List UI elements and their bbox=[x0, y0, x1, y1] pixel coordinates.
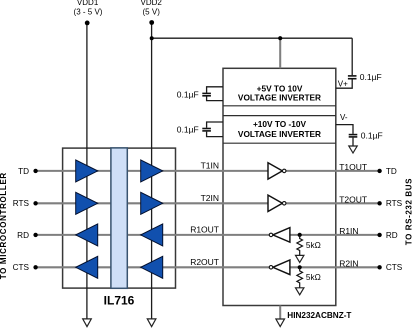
svg-text:TO MICROCONTROLLER: TO MICROCONTROLLER bbox=[0, 172, 8, 279]
wire R1IN row right segment bbox=[290, 234, 380, 236]
resistor 5k R1 bbox=[297, 235, 303, 255]
wire TD row left segment bbox=[36, 170, 268, 172]
node RD right dot bbox=[377, 233, 381, 237]
junction rail to U2 bbox=[278, 36, 282, 40]
wire VDD1 vertical bbox=[86, 23, 88, 319]
IC U1 IL716 box bbox=[63, 148, 176, 288]
svg-text:CTS: CTS bbox=[13, 263, 30, 272]
svg-text:RTS: RTS bbox=[386, 199, 403, 208]
driver T1 bubble bbox=[282, 169, 286, 173]
svg-text:IL716: IL716 bbox=[104, 294, 135, 308]
svg-text:T2OUT: T2OUT bbox=[339, 195, 367, 205]
svg-text:5kΩ: 5kΩ bbox=[306, 240, 321, 250]
wire R2IN row right segment bbox=[290, 266, 380, 268]
wire VDD2 rail to V+ capacitor bbox=[152, 37, 353, 39]
svg-text:R2IN: R2IN bbox=[339, 259, 358, 269]
junction VDD2 rail bbox=[150, 36, 154, 40]
resistor 5k R2 bbox=[297, 267, 303, 287]
svg-text:RD: RD bbox=[17, 231, 29, 240]
wire RD row left segment bbox=[36, 234, 271, 236]
receiver R2 bubble bbox=[269, 266, 273, 270]
node RTS left dot bbox=[33, 201, 37, 205]
receiver R1 triangle bbox=[273, 228, 290, 243]
svg-text:T2IN: T2IN bbox=[201, 193, 219, 203]
capacitor C2 plates bbox=[348, 75, 357, 77]
ground lead U1 VDD2 side bbox=[147, 319, 156, 327]
ground U2 bbox=[276, 319, 285, 327]
junction R1 input bbox=[298, 233, 302, 237]
isolator channel 3 triangle left bbox=[76, 224, 98, 246]
driver T1 triangle bbox=[268, 163, 282, 179]
svg-text:RTS: RTS bbox=[13, 199, 30, 208]
svg-text:RD: RD bbox=[386, 231, 398, 240]
isolator channel 2 triangle right bbox=[141, 192, 163, 214]
svg-text:TD: TD bbox=[18, 167, 29, 176]
driver T2 triangle bbox=[268, 195, 282, 211]
wire V- pin to capacitor C5 bbox=[336, 125, 353, 134]
isolator channel 4 triangle right bbox=[141, 256, 163, 278]
wire T2OUT row right segment bbox=[286, 202, 380, 204]
node RD left dot bbox=[33, 233, 37, 237]
ground under R2 resistor bbox=[296, 288, 304, 295]
IC U2 HIN232ACBNZ-T box bbox=[223, 68, 336, 305]
node RTS right dot bbox=[377, 201, 381, 205]
svg-text:T1IN: T1IN bbox=[201, 161, 219, 171]
svg-text:CTS: CTS bbox=[386, 263, 403, 272]
svg-text:TO RS-232 BUS: TO RS-232 BUS bbox=[405, 178, 413, 245]
svg-text:VDD1: VDD1 bbox=[77, 0, 99, 7]
divider top of +10V inverter bbox=[223, 115, 336, 117]
isolator channel 1 triangle right bbox=[141, 160, 163, 182]
svg-text:V+: V+ bbox=[338, 79, 348, 88]
svg-text:0.1µF: 0.1µF bbox=[177, 89, 199, 99]
node TD left dot bbox=[33, 169, 37, 173]
capacitor C2 0.1uF at V+ : top lead bbox=[351, 38, 353, 75]
svg-text:VDD2: VDD2 bbox=[141, 0, 163, 7]
isolator channel 1 triangle left bbox=[76, 160, 98, 182]
capacitor C2 bottom lead to V+ pin bbox=[336, 80, 352, 89]
wire T1OUT row right segment bbox=[286, 170, 380, 172]
divider bottom of +5V inverter bbox=[223, 105, 336, 107]
svg-text:HIN232ACBNZ-T: HIN232ACBNZ-T bbox=[287, 311, 351, 320]
svg-text:VOLTAGE INVERTER: VOLTAGE INVERTER bbox=[238, 92, 321, 102]
svg-text:0.1µF: 0.1µF bbox=[177, 125, 199, 135]
ground lead U1 VDD1 side bbox=[83, 319, 92, 327]
capacitor C3 0.1uF at U2 left top bbox=[207, 87, 223, 93]
svg-text:0.1µF: 0.1µF bbox=[361, 130, 383, 140]
isolator channel 3 triangle right bbox=[141, 224, 163, 246]
capacitor C5 plates bbox=[349, 134, 358, 136]
svg-text:V-: V- bbox=[340, 113, 348, 122]
svg-text:R1OUT: R1OUT bbox=[190, 225, 219, 235]
svg-text:VOLTAGE INVERTER: VOLTAGE INVERTER bbox=[238, 129, 321, 139]
isolation barrier bar bbox=[111, 148, 127, 288]
svg-text:R1IN: R1IN bbox=[339, 226, 358, 236]
svg-text:R2OUT: R2OUT bbox=[190, 257, 219, 267]
capacitor C4 0.1uF at U2 left lower bbox=[207, 122, 223, 128]
ground under R1 resistor bbox=[296, 255, 304, 262]
wire U2 ground stub bbox=[279, 306, 281, 320]
junction R2 input bbox=[298, 265, 302, 269]
svg-text:TD: TD bbox=[386, 167, 397, 176]
node VDD1 terminal dot bbox=[85, 21, 90, 26]
node CTS right dot bbox=[377, 265, 381, 269]
receiver R1 bubble bbox=[269, 233, 273, 237]
receiver R2 triangle bbox=[273, 260, 290, 275]
wire CTS row left segment bbox=[36, 266, 271, 268]
wire drop from rail to U2 top bbox=[279, 38, 281, 68]
node VDD2 terminal dot bbox=[149, 20, 154, 25]
svg-text:+10V TO -10V: +10V TO -10V bbox=[253, 119, 307, 129]
ground under C5 bbox=[349, 146, 357, 153]
svg-text:(5 V): (5 V) bbox=[143, 7, 161, 16]
svg-text:(3 - 5 V): (3 - 5 V) bbox=[74, 7, 103, 16]
isolator channel 4 triangle left bbox=[76, 256, 98, 278]
svg-text:5kΩ: 5kΩ bbox=[306, 272, 321, 282]
divider bottom of +10V inverter bbox=[223, 142, 336, 144]
isolator channel 2 triangle left bbox=[76, 192, 98, 214]
svg-text:T1OUT: T1OUT bbox=[339, 162, 367, 172]
capacitor C5 bottom lead bbox=[352, 138, 354, 146]
svg-text:0.1µF: 0.1µF bbox=[360, 72, 382, 82]
node TD right dot bbox=[377, 169, 381, 173]
driver T2 bubble bbox=[282, 202, 286, 206]
node CTS left dot bbox=[33, 265, 37, 269]
wire VDD2 vertical bbox=[151, 23, 153, 319]
wire RTS row left segment bbox=[36, 202, 268, 204]
